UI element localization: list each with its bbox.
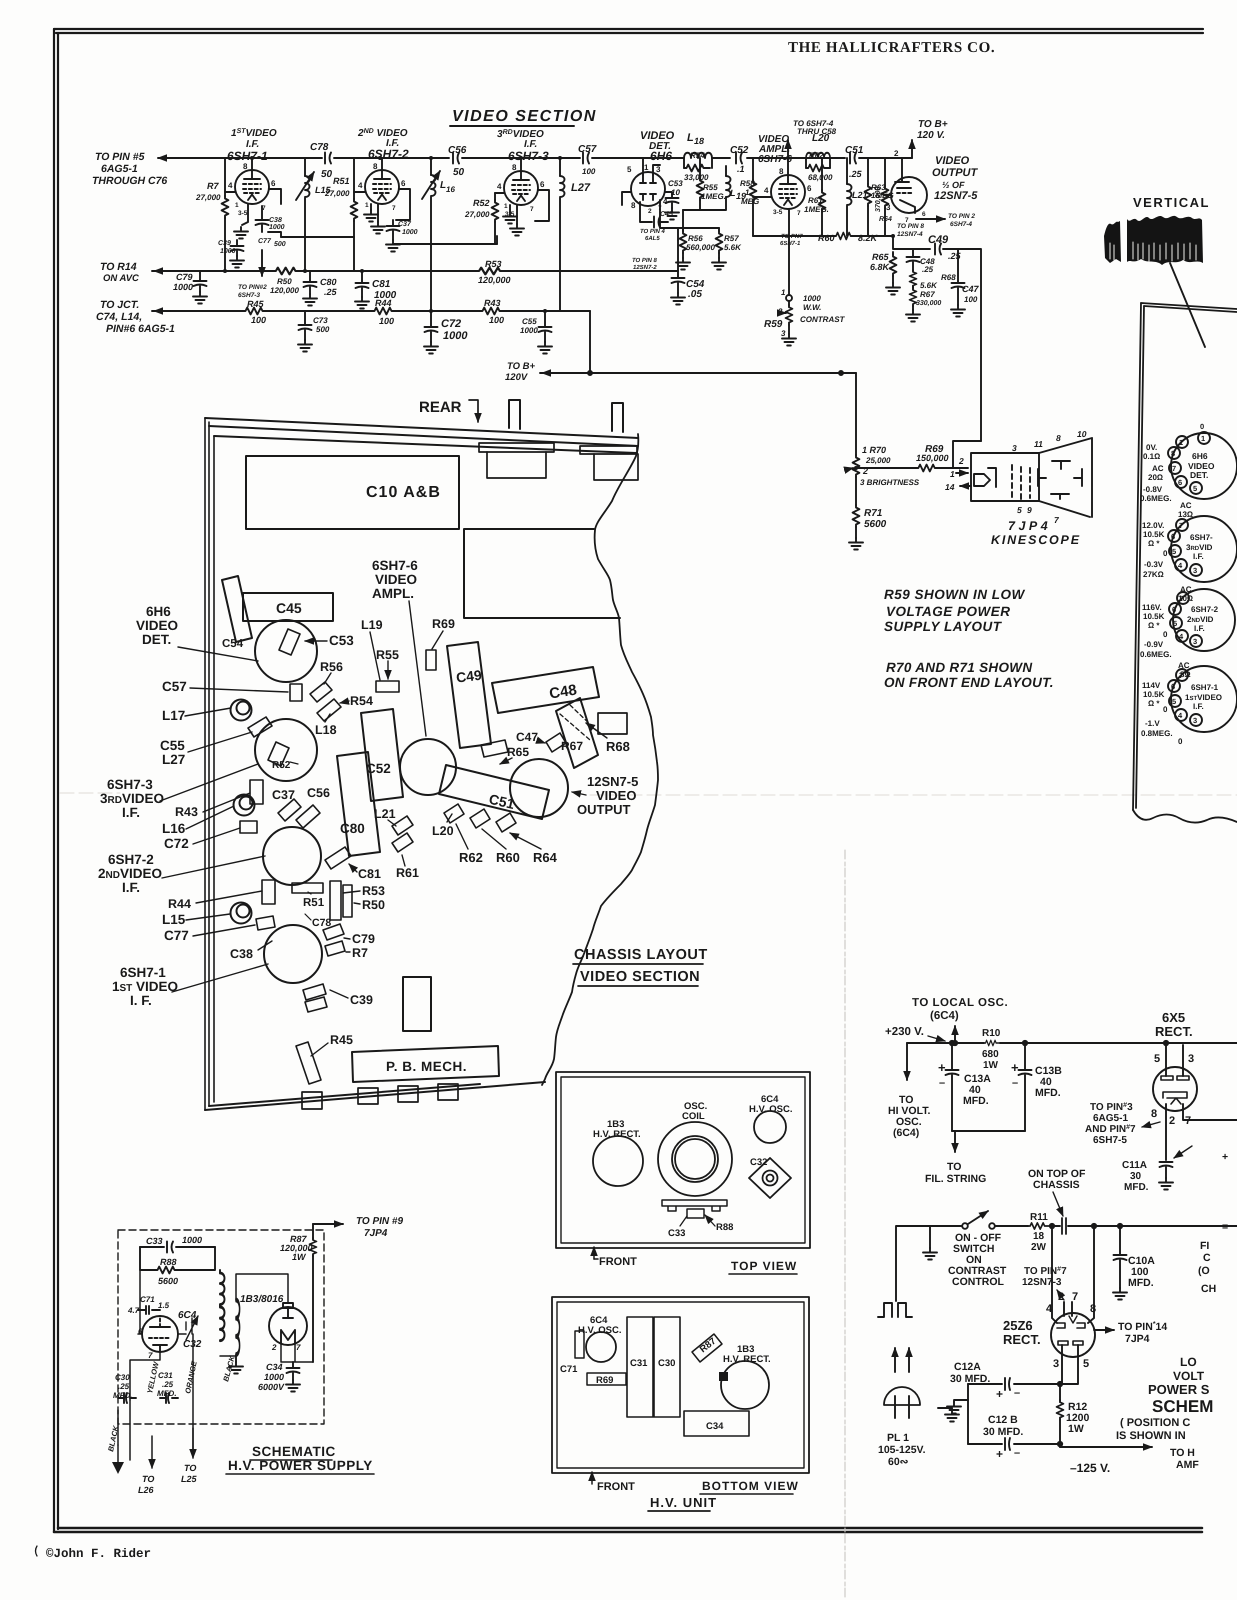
svg-text:18: 18: [694, 136, 704, 146]
inductor L19: [700, 166, 746, 210]
svg-text:1STVIDEO: 1STVIDEO: [1185, 693, 1222, 702]
svg-text:C73: C73: [313, 316, 328, 325]
svg-text:L25: L25: [181, 1474, 198, 1484]
svg-text:I.F.: I.F.: [1193, 552, 1204, 561]
svg-text:6.8K: 6.8K: [870, 262, 891, 272]
tube 6SH7-3 label: [497, 129, 549, 163]
svg-text:11: 11: [1034, 439, 1043, 449]
block R87 rotated with label: [692, 1334, 722, 1362]
label to pin 5: [92, 151, 167, 187]
svg-text:2W: 2W: [1031, 1242, 1047, 1253]
box inner: [561, 1077, 805, 1243]
svg-text:R56: R56: [320, 660, 343, 674]
svg-text:AC: AC: [1152, 464, 1164, 473]
svg-text:R60: R60: [818, 233, 835, 243]
svg-text:–: –: [1014, 1387, 1020, 1399]
svg-text:6SH7-2: 6SH7-2: [108, 852, 154, 867]
capacitor C45: [640, 202, 673, 228]
svg-text:2: 2: [894, 149, 899, 158]
svg-text:R10: R10: [982, 1028, 1001, 1039]
block C34 with label: [684, 1411, 749, 1436]
svg-text:100: 100: [251, 315, 266, 325]
capacitor C13A: [938, 1043, 991, 1131]
svg-text:I.F.: I.F.: [1194, 624, 1205, 633]
wire AVC bus: [152, 270, 678, 272]
svg-text:680: 680: [982, 1049, 999, 1060]
svg-text:100: 100: [379, 316, 394, 326]
arrow jct left: [154, 310, 170, 312]
svg-text:R50: R50: [277, 277, 292, 286]
svg-text:-0.8V: -0.8V: [1143, 485, 1163, 494]
chassis right torn edge: [542, 434, 658, 1085]
wire 6H6 left pin: [622, 192, 631, 205]
label R61 + block: [392, 833, 419, 880]
wire pin4 tube1: [225, 191, 235, 193]
svg-text:IS SHOWN IN: IS SHOWN IN: [1116, 1430, 1186, 1442]
svg-text:6SH7-4: 6SH7-4: [950, 221, 972, 228]
svg-text:R60: R60: [496, 850, 520, 865]
svg-text:H.V. OSC.: H.V. OSC.: [749, 1104, 792, 1115]
label C78: [305, 914, 331, 929]
svg-text:.25: .25: [162, 1380, 174, 1389]
tube socket 6SH7-2: [1140, 585, 1235, 659]
svg-text:VERTICAL: VERTICAL: [1133, 195, 1210, 210]
svg-text:DET.: DET.: [1190, 470, 1208, 480]
capacitor C77: [258, 232, 286, 248]
svg-text:+: +: [1011, 1060, 1019, 1075]
inductor L15: [296, 158, 332, 271]
diagonal pointer line: [1170, 263, 1205, 347]
tube 6SH7-6 label: [758, 134, 792, 165]
black mark on socket: [719, 1372, 728, 1381]
label to pin8 12SN7-2: [632, 257, 658, 271]
svg-text:ON AVC: ON AVC: [103, 273, 139, 284]
svg-text:-0.9V: -0.9V: [1144, 640, 1164, 649]
svg-text:5.6K: 5.6K: [920, 281, 938, 290]
svg-text:C38: C38: [230, 947, 253, 961]
block C80: [337, 752, 380, 856]
label C77 + block: [164, 916, 275, 943]
svg-text:C33: C33: [146, 1236, 163, 1246]
svg-text:C74, L14,: C74, L14,: [96, 311, 142, 323]
ground switch: [923, 1248, 937, 1260]
inductor L20 with resistor R62: [806, 133, 833, 182]
chassis top edge: [205, 418, 638, 453]
cut text at right edge: [1198, 1151, 1228, 1295]
transformer coil secondary: [229, 1300, 243, 1374]
leader R69: [432, 631, 443, 649]
wire JCT to B+: [589, 311, 591, 373]
svg-text:1000: 1000: [173, 282, 193, 292]
svg-text:25,000: 25,000: [865, 456, 891, 465]
svg-text:3: 3: [1193, 716, 1197, 725]
wire from C49 node down to kinescope socket: [953, 441, 981, 468]
labels C37 C56: [272, 786, 330, 802]
svg-text:8: 8: [1056, 433, 1061, 443]
svg-text:L19: L19: [361, 618, 383, 632]
svg-text:TO H: TO H: [1170, 1447, 1195, 1459]
strip top edge: [1141, 303, 1237, 312]
svg-text:THROUGH C76: THROUGH C76: [92, 175, 167, 187]
kinescope grids dashed: [1012, 465, 1030, 499]
svg-text:30 MFD.: 30 MFD.: [950, 1373, 990, 1385]
capacitor C73: [298, 311, 330, 352]
svg-text:C77: C77: [164, 928, 189, 943]
svg-text:R54: R54: [350, 694, 373, 708]
svg-text:R61: R61: [808, 196, 823, 205]
chassis block bar 1: [479, 443, 554, 452]
kinescope electrodes: [1038, 461, 1082, 499]
svg-text:7JP4: 7JP4: [364, 1228, 388, 1239]
tube 6SH7-6: [771, 175, 805, 209]
svg-text:6SH7-1: 6SH7-1: [1191, 683, 1219, 692]
svg-text:2: 2: [1058, 1291, 1064, 1303]
svg-text:C57: C57: [162, 679, 187, 694]
svg-text:R87: R87: [698, 1336, 719, 1355]
wire middle bus: [995, 1225, 1237, 1227]
svg-text:30 MFD.: 30 MFD.: [983, 1426, 1023, 1438]
svg-text:.25: .25: [849, 169, 863, 179]
svg-text:C49: C49: [928, 234, 949, 246]
pin labels 25Z6: [1046, 1291, 1096, 1370]
svg-text:(6C4): (6C4): [893, 1127, 919, 1139]
wire wiper to kinescope: [856, 467, 968, 469]
transformer coil primary: [220, 1270, 225, 1341]
svg-text:0: 0: [1178, 737, 1183, 746]
svg-text:C30: C30: [115, 1373, 130, 1382]
label bottom view: [700, 1479, 799, 1494]
svg-text:6: 6: [1171, 682, 1175, 691]
tube socket 6SH7-3: [1142, 501, 1237, 582]
socket 1B3 bottom: [721, 1361, 769, 1409]
capacitor C48 block: [492, 667, 599, 713]
labels C33 R88 with leaders: [668, 1215, 733, 1239]
arrow to pin3: [1142, 1122, 1160, 1127]
svg-text:12SN7-5: 12SN7-5: [587, 774, 638, 789]
resistor R45: [243, 299, 269, 325]
label 25Z6: [1003, 1318, 1041, 1347]
svg-text:(O: (O: [1198, 1265, 1210, 1277]
svg-text:8: 8: [779, 167, 784, 176]
label C81 + block: [325, 847, 381, 881]
svg-text:PIN#6 6AG5-1: PIN#6 6AG5-1: [106, 323, 175, 335]
svg-text:4: 4: [228, 181, 233, 190]
svg-text:FIL. STRING: FIL. STRING: [925, 1173, 986, 1185]
svg-text:7: 7: [1185, 1115, 1191, 1127]
resistor R87: [280, 1224, 316, 1362]
chassis left edge: [205, 418, 214, 1110]
svg-text:27KΩ: 27KΩ: [1143, 570, 1164, 579]
svg-text:1MEG.: 1MEG.: [804, 205, 829, 214]
osc coil circles: [658, 1122, 732, 1196]
svg-text:8Ω: 8Ω: [1180, 670, 1191, 679]
chassis tab top 1: [509, 400, 520, 429]
arrow black down: [117, 1445, 119, 1462]
svg-text:6SH7-1: 6SH7-1: [227, 149, 268, 163]
svg-text:12.0V.: 12.0V.: [1142, 521, 1164, 530]
svg-text:R54: R54: [690, 151, 705, 160]
svg-text:25Z6: 25Z6: [1003, 1318, 1033, 1333]
svg-text:+230 V.: +230 V.: [885, 1026, 924, 1038]
wire cathode network: [893, 236, 981, 441]
svg-text:PL 1: PL 1: [887, 1432, 909, 1444]
svg-text:6AG5-1: 6AG5-1: [101, 163, 138, 175]
svg-text:-1.V: -1.V: [1145, 719, 1160, 728]
svg-text:SUPPLY LAYOUT: SUPPLY LAYOUT: [884, 619, 1003, 634]
resistor R56: [676, 210, 715, 270]
capacitor C81: [355, 271, 397, 309]
svg-text:1000: 1000: [269, 224, 285, 231]
svg-text:C81: C81: [358, 867, 381, 881]
svg-text:½ OF: ½ OF: [942, 180, 965, 190]
label top view: [729, 1259, 797, 1274]
svg-text:TO: TO: [184, 1463, 196, 1473]
svg-text:MFD.: MFD.: [963, 1095, 989, 1107]
svg-text:TO R14: TO R14: [100, 261, 137, 273]
fold crease vertical: [844, 850, 846, 1598]
leader 12SN7-5: [572, 792, 586, 795]
capacitor C54 block: [222, 576, 252, 650]
label R45 + block: [296, 1033, 353, 1084]
svg-text:BOTTOM VIEW: BOTTOM VIEW: [702, 1479, 799, 1493]
plain square block: [403, 977, 431, 1031]
leader R55: [387, 661, 389, 679]
svg-text:W.W.: W.W.: [803, 303, 821, 312]
svg-text:C45: C45: [276, 600, 302, 616]
leader R56: [324, 673, 331, 684]
node to pin5 arrow: [158, 157, 178, 159]
svg-text:6C4: 6C4: [178, 1310, 197, 1321]
svg-text:VIDEO: VIDEO: [136, 618, 178, 633]
svg-text:–: –: [1012, 1077, 1018, 1089]
tube 6X5 pin wires: [1166, 1043, 1237, 1160]
label R55: [376, 648, 399, 662]
svg-text:6AG5-1: 6AG5-1: [1093, 1113, 1128, 1124]
svg-text:ON FRONT END LAYOUT.: ON FRONT END LAYOUT.: [884, 675, 1054, 690]
label 6SH7-3 3rd video: [100, 777, 164, 820]
trimmer C32 diamond: [749, 1158, 791, 1198]
inductor L21: [847, 158, 868, 236]
svg-text:R67: R67: [920, 290, 935, 299]
svg-text:.1: .1: [737, 164, 745, 174]
svg-text:AC: AC: [1180, 585, 1192, 594]
svg-text:3: 3: [886, 203, 891, 212]
svg-text:MEG: MEG: [741, 197, 759, 206]
svg-text:1000: 1000: [264, 1372, 284, 1382]
svg-text:R58: R58: [740, 179, 755, 188]
resistor R65 label + block: [481, 740, 529, 764]
border top: [54, 29, 1203, 33]
svg-text:6: 6: [1178, 478, 1182, 487]
svg-text:6: 6: [540, 180, 545, 189]
svg-text:100: 100: [964, 295, 978, 304]
svg-text:0.1Ω: 0.1Ω: [1143, 452, 1160, 461]
svg-text:VIDEO: VIDEO: [375, 572, 417, 587]
wire 1B3 filament: [281, 1343, 313, 1362]
kinescope neck: [971, 453, 1039, 501]
tube socket 6SH7-2 layout: [263, 827, 321, 885]
block R69 with label: [587, 1373, 626, 1386]
chassis block bar 2: [580, 446, 637, 454]
potentiometer R59 contrast: [764, 288, 846, 346]
svg-text:5600: 5600: [158, 1276, 178, 1286]
border left: [54, 29, 58, 1532]
svg-text:1: 1: [644, 163, 649, 172]
svg-text:6SH7-6: 6SH7-6: [372, 558, 418, 573]
svg-text:3-5: 3-5: [238, 210, 248, 217]
svg-text:0.6MEG.: 0.6MEG.: [1140, 650, 1172, 659]
svg-text:8: 8: [373, 162, 378, 171]
title VIDEO SECTION: [450, 108, 597, 126]
box outer: [556, 1072, 810, 1248]
svg-text:.05: .05: [688, 289, 702, 300]
svg-text:120 V.: 120 V.: [917, 130, 945, 141]
svg-text:120V: 120V: [505, 372, 528, 383]
svg-text:LO: LO: [1180, 1355, 1197, 1369]
tube 1B3/8016: [240, 1294, 307, 1352]
wire stage3 out: [496, 236, 498, 244]
labels R53 R50 + blocks: [330, 881, 385, 920]
svg-text:C77: C77: [258, 238, 272, 245]
svg-text:R68: R68: [941, 273, 956, 282]
wire pin6 tube2: [396, 189, 410, 220]
resistor R67: [906, 286, 941, 322]
tube socket 6SH7-6 layout: [400, 739, 456, 795]
junction dot: [588, 371, 592, 375]
svg-text:R65: R65: [872, 252, 890, 262]
svg-text:6: 6: [1171, 532, 1175, 541]
svg-text:6SH7-1: 6SH7-1: [780, 240, 801, 247]
svg-text:KINESCOPE: KINESCOPE: [991, 533, 1081, 547]
svg-text:6H6: 6H6: [146, 604, 171, 619]
box inner: [557, 1302, 804, 1468]
wire pin6 tube1: [269, 189, 281, 204]
svg-text:50: 50: [321, 169, 333, 180]
svg-text:R69: R69: [432, 617, 455, 631]
resistor R61: [804, 158, 829, 236]
wires bottom hv: [118, 1334, 193, 1460]
svg-text:C30: C30: [658, 1358, 675, 1369]
resistor R64: [875, 158, 892, 236]
svg-text:C51: C51: [487, 791, 516, 812]
svg-text:12SN7-5: 12SN7-5: [934, 190, 978, 202]
svg-text:R50: R50: [362, 898, 385, 912]
svg-text:R68: R68: [606, 739, 630, 754]
svg-text:TO PIN*14: TO PIN*14: [1118, 1321, 1167, 1333]
svg-text:20Ω: 20Ω: [1148, 473, 1163, 482]
svg-text:8: 8: [243, 162, 248, 171]
svg-text:120,000: 120,000: [270, 286, 299, 295]
strip bottom wavy edge: [1133, 810, 1237, 823]
variable capacitor C32: [183, 1316, 202, 1350]
svg-text:C47: C47: [962, 284, 980, 294]
label L20 + leader: [432, 814, 454, 838]
svg-text:.25: .25: [118, 1382, 130, 1391]
capacitor C53 inside tube: [279, 629, 354, 655]
svg-text:TOP VIEW: TOP VIEW: [731, 1259, 797, 1273]
svg-text:7: 7: [1072, 1291, 1078, 1303]
capacitor C47: [951, 283, 980, 317]
wires 6C4 area: [130, 1270, 236, 1400]
svg-text:5: 5: [1083, 1358, 1089, 1370]
svg-text:6SH7-2: 6SH7-2: [368, 147, 409, 161]
svg-text:L16: L16: [162, 821, 186, 836]
svg-text:8.2K: 8.2K: [858, 233, 879, 243]
svg-text:4: 4: [1179, 632, 1184, 641]
svg-text:Ω *: Ω *: [1148, 699, 1160, 708]
tube3 cathode grounds: [509, 205, 511, 212]
resistor R68: [910, 270, 957, 290]
svg-text:C71: C71: [560, 1364, 578, 1375]
svg-text:3: 3: [1193, 566, 1197, 575]
svg-text:1W: 1W: [292, 1252, 307, 1262]
svg-text:16: 16: [446, 185, 455, 194]
svg-text:6SH7-: 6SH7-: [1190, 533, 1213, 542]
svg-text:R57: R57: [724, 234, 739, 243]
svg-text:AC: AC: [1178, 661, 1190, 670]
leader L18: [325, 714, 330, 722]
svg-text:VIDEO: VIDEO: [935, 155, 970, 167]
svg-text:3: 3: [1188, 1053, 1194, 1065]
block L27: [248, 717, 272, 737]
svg-text:8: 8: [631, 201, 636, 210]
label 1B3 HV RECT: [593, 1119, 641, 1140]
label on top of chassis: [1028, 1168, 1086, 1216]
svg-text:1000: 1000: [520, 326, 538, 335]
resistor R44: [372, 298, 398, 326]
svg-text:C57: C57: [578, 144, 597, 155]
capacitor C38: [256, 206, 285, 232]
svg-text:3: 3: [1193, 637, 1197, 646]
tube socket 6H6: [1140, 422, 1237, 503]
resistor R57: [712, 228, 742, 270]
label L18: [315, 723, 337, 737]
inductor L18 with resistor R54: [684, 132, 712, 182]
tube socket 6H6 layout: [255, 620, 317, 682]
kinescope funnel: [1039, 438, 1092, 517]
svg-text:7JP4: 7JP4: [1125, 1333, 1150, 1345]
svg-text:7: 7: [296, 1343, 301, 1352]
svg-text:SCHEM: SCHEM: [1152, 1397, 1213, 1416]
junction dot C12B: [1058, 1442, 1062, 1446]
svg-text:R43: R43: [484, 298, 501, 308]
svg-text:ORANGE: ORANGE: [183, 1359, 199, 1394]
label C72 + block: [164, 821, 257, 851]
wire switch left: [896, 1226, 962, 1301]
resistor R51: [324, 158, 357, 271]
svg-text:MFD.: MFD.: [1035, 1087, 1061, 1099]
dashed enclosure: [118, 1230, 324, 1424]
svg-text:+: +: [996, 1387, 1003, 1401]
label R54 + block: [317, 694, 373, 721]
label chassis layout video section: [574, 947, 708, 985]
fold crease horizontal: [60, 793, 1237, 795]
label to R14 on AVC: [100, 261, 139, 284]
wire 6H6 plate: [643, 158, 660, 175]
label +230V: [885, 1026, 945, 1041]
svg-text:TO PIN 4: TO PIN 4: [640, 228, 666, 235]
svg-text:1B3/8016: 1B3/8016: [240, 1294, 284, 1305]
svg-text:3RDVID: 3RDVID: [1186, 543, 1213, 552]
svg-text:2ND VIDEO: 2ND VIDEO: [357, 128, 408, 139]
wire 12SN7 plate top: [902, 157, 912, 159]
svg-text:7: 7: [1172, 464, 1176, 473]
svg-text:100: 100: [582, 167, 596, 176]
svg-text:C54: C54: [222, 638, 244, 650]
svg-text:1 R70: 1 R70: [862, 445, 886, 455]
svg-text:4: 4: [358, 181, 363, 190]
svg-text:120,000: 120,000: [478, 275, 511, 285]
